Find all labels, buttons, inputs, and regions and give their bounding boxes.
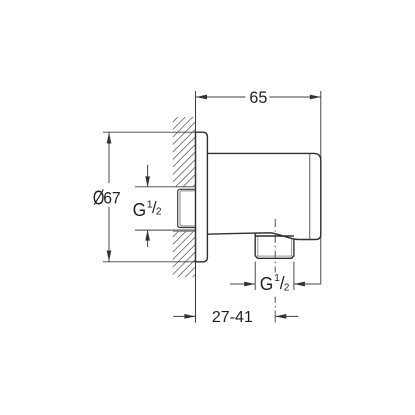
svg-text:2: 2 (284, 283, 290, 294)
svg-text:65: 65 (249, 89, 267, 107)
svg-text:G: G (133, 200, 147, 220)
svg-text:G: G (260, 274, 274, 294)
svg-text:67: 67 (103, 190, 121, 208)
svg-text:2: 2 (156, 207, 162, 218)
svg-text:27-41: 27-41 (212, 309, 253, 326)
